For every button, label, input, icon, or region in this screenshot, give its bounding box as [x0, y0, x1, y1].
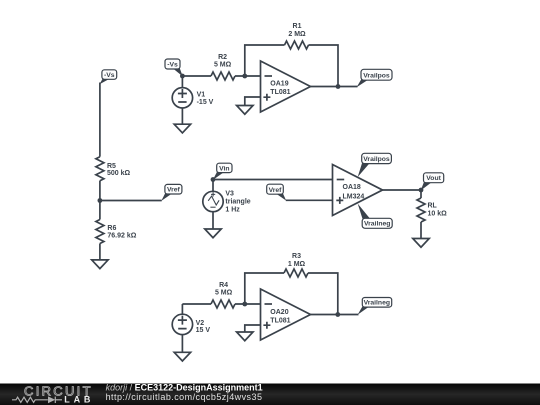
svg-text:RL: RL — [428, 203, 438, 210]
svg-text:-Vs: -Vs — [104, 72, 115, 79]
svg-text:OA19: OA19 — [270, 81, 288, 88]
svg-text:TL081: TL081 — [270, 89, 290, 96]
svg-text:TL081: TL081 — [270, 317, 290, 324]
svg-text:1 MΩ: 1 MΩ — [288, 261, 306, 268]
svg-text:10 kΩ: 10 kΩ — [428, 211, 448, 218]
svg-text:OA20: OA20 — [270, 309, 288, 316]
svg-text:R1: R1 — [293, 23, 302, 30]
svg-text:Vin: Vin — [219, 165, 229, 172]
svg-text:76.92 kΩ: 76.92 kΩ — [107, 233, 136, 240]
svg-text:5 MΩ: 5 MΩ — [214, 62, 232, 69]
svg-text:500 kΩ: 500 kΩ — [107, 170, 131, 177]
svg-text:V3: V3 — [225, 191, 234, 198]
svg-text:LM324: LM324 — [343, 194, 365, 201]
svg-text:triangle: triangle — [225, 199, 250, 206]
svg-text:-Vs: -Vs — [167, 62, 178, 69]
svg-text:5 MΩ: 5 MΩ — [215, 289, 233, 296]
svg-text:R2: R2 — [218, 54, 227, 61]
svg-text:R3: R3 — [292, 253, 301, 260]
svg-text:Vrailneg: Vrailneg — [364, 221, 390, 228]
svg-text:Vref: Vref — [269, 187, 283, 194]
svg-text:1 Hz: 1 Hz — [225, 207, 240, 214]
svg-text:Vout: Vout — [426, 175, 441, 182]
svg-text:http://circuitlab.com/cqcb5zj4: http://circuitlab.com/cqcb5zj4wvs35 — [106, 392, 263, 402]
svg-text:kdorji / ECE3122-DesignAssignm: kdorji / ECE3122-DesignAssignment1 — [106, 382, 263, 392]
svg-text:R6: R6 — [107, 225, 116, 232]
svg-text:LAB: LAB — [64, 395, 94, 405]
svg-text:V2: V2 — [196, 320, 205, 327]
svg-text:-15 V: -15 V — [197, 99, 214, 106]
svg-text:2 MΩ: 2 MΩ — [288, 31, 306, 38]
svg-text:R5: R5 — [107, 163, 116, 170]
svg-text:OA18: OA18 — [343, 184, 361, 191]
svg-text:Vrailpos: Vrailpos — [363, 156, 390, 163]
svg-text:Vref: Vref — [167, 187, 181, 194]
svg-text:Vrailneg: Vrailneg — [364, 300, 390, 307]
svg-text:15 V: 15 V — [196, 327, 211, 334]
svg-text:Vrailpos: Vrailpos — [363, 72, 390, 79]
svg-text:V1: V1 — [197, 92, 206, 99]
svg-text:R4: R4 — [219, 282, 228, 289]
